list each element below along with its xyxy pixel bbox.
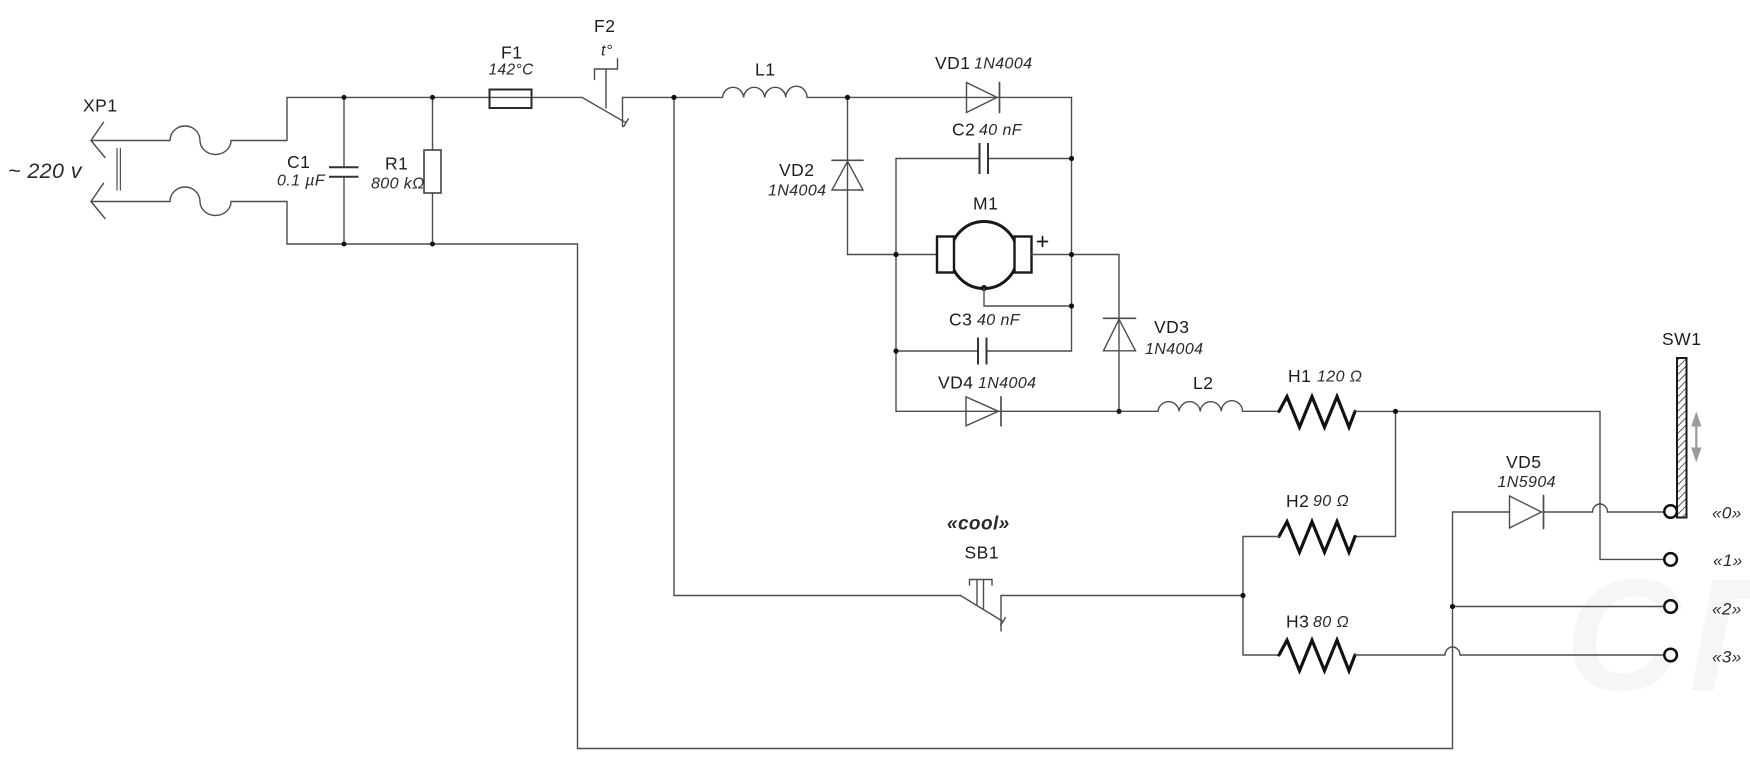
wire terminal 2 xyxy=(1453,606,1665,608)
pushbutton SB1 plunger xyxy=(970,580,993,609)
wire F2 to node A xyxy=(623,96,723,98)
node R1 top xyxy=(430,95,435,100)
diode VD2 xyxy=(832,97,863,254)
connector XP1 pins xyxy=(117,149,120,191)
svg-text:L2: L2 xyxy=(1193,373,1213,393)
switch SW1 travel arrow xyxy=(1691,412,1701,463)
heater H3 xyxy=(1279,640,1355,671)
terminal 1 xyxy=(1664,553,1677,566)
connector XP1 top arrow xyxy=(91,122,105,157)
svg-text:0.1 µF: 0.1 µF xyxy=(277,173,326,190)
switch SW1 slider bar xyxy=(1677,358,1687,518)
wire top rail xyxy=(287,96,582,98)
svg-text:1N4004: 1N4004 xyxy=(978,375,1036,392)
wire L1 to corner xyxy=(807,96,1072,98)
pushbutton SB1 blade xyxy=(961,596,1006,626)
fuse F1 xyxy=(490,90,532,109)
svg-text:40 nF: 40 nF xyxy=(977,312,1021,329)
node VD3 bottom xyxy=(1116,409,1121,414)
thermal switch F2 fixed contact xyxy=(622,98,624,127)
motor bottom terminal xyxy=(981,285,987,291)
diode VD4 xyxy=(966,397,1001,426)
wire SB1 left xyxy=(674,595,961,597)
wire neutral cord (bottom) xyxy=(91,187,287,244)
terminal 2 xyxy=(1664,600,1677,613)
wire H1/H2 junction vertical xyxy=(1355,411,1396,536)
svg-text:C2: C2 xyxy=(952,120,975,140)
svg-text:~ 220 v: ~ 220 v xyxy=(8,159,83,183)
wire node A down to SB1 xyxy=(673,97,675,595)
svg-text:«0»: «0» xyxy=(1712,504,1742,523)
svg-text:M1: M1 xyxy=(973,194,998,214)
svg-text:SB1: SB1 xyxy=(965,543,1000,563)
node terminal-2 tap xyxy=(1450,604,1455,609)
svg-text:H3: H3 xyxy=(1286,612,1309,632)
plus polarity mark xyxy=(1038,237,1048,247)
node H1 right xyxy=(1393,409,1398,414)
svg-text:VD3: VD3 xyxy=(1154,317,1190,337)
wire M1 right brush to VD3 corner xyxy=(1032,254,1120,256)
wire SB1 right to heater node xyxy=(1001,595,1243,597)
node M1 right xyxy=(1069,252,1074,257)
diode VD3 xyxy=(1104,255,1136,412)
node SB1 heater xyxy=(1240,593,1245,598)
svg-text:VD2: VD2 xyxy=(779,160,815,180)
inductor L2 xyxy=(1158,401,1243,412)
svg-text:1N4004: 1N4004 xyxy=(768,183,826,200)
svg-text:800 kΩ: 800 kΩ xyxy=(371,176,425,193)
svg-text:XP1: XP1 xyxy=(83,96,118,116)
thermal switch F2 blade xyxy=(582,97,628,126)
node R1 bottom xyxy=(430,242,435,247)
svg-text:L1: L1 xyxy=(755,60,775,80)
thermal switch F2 actuator xyxy=(595,59,618,108)
heater H1 xyxy=(1279,397,1355,428)
wire M1 bottom tap xyxy=(984,288,1072,306)
terminal 0 xyxy=(1664,505,1677,518)
svg-text:VD5: VD5 xyxy=(1506,452,1542,472)
svg-text:C1: C1 xyxy=(287,152,310,172)
wire VD1 branch vertical (right frame) xyxy=(1071,97,1073,351)
svg-text:40 nF: 40 nF xyxy=(979,122,1023,139)
terminal 3 xyxy=(1664,649,1677,662)
capacitor C2 xyxy=(896,143,1072,174)
connector XP1 bottom arrow xyxy=(91,183,105,218)
node C3 left xyxy=(893,348,898,353)
svg-text:142°C: 142°C xyxy=(489,62,535,79)
node A xyxy=(671,95,676,100)
svg-text:1N5904: 1N5904 xyxy=(1498,474,1556,491)
node C1 top xyxy=(342,95,347,100)
wire H2 left to H3 left xyxy=(1243,537,1279,656)
svg-text:1N4004: 1N4004 xyxy=(974,56,1032,73)
svg-text:R1: R1 xyxy=(385,154,408,174)
wire VD5 anode xyxy=(1453,511,1510,513)
capacitor C3 xyxy=(896,338,1072,365)
capacitor C1 xyxy=(329,97,359,244)
svg-text:t°: t° xyxy=(601,43,613,60)
wire H3 right with hop to terminal 3 xyxy=(1355,647,1664,655)
wire VD5 to terminal 0 with hop xyxy=(1544,504,1665,512)
svg-text:VD4: VD4 xyxy=(938,373,974,393)
node M1 bottom tap xyxy=(1069,303,1074,308)
svg-text:120 Ω: 120 Ω xyxy=(1317,369,1362,386)
pushbutton SB1 fixed contact xyxy=(1000,596,1002,632)
node C1 bottom xyxy=(342,242,347,247)
wire phase cord (top) xyxy=(91,97,287,154)
svg-text:«2»: «2» xyxy=(1712,600,1742,619)
wire H1 to SW1 pole xyxy=(1355,411,1664,559)
svg-text:VD1: VD1 xyxy=(935,53,971,73)
diode VD1 xyxy=(967,83,1000,113)
wire VD2 to M1 left brush xyxy=(848,254,938,256)
svg-text:F1: F1 xyxy=(501,43,522,63)
wire left frame vertical xyxy=(895,159,897,412)
svg-text:80 Ω: 80 Ω xyxy=(1313,614,1349,631)
node VD2 top xyxy=(845,95,850,100)
wire VD4 line xyxy=(896,410,1158,412)
motor M1 xyxy=(937,222,1032,289)
svg-text:SW1: SW1 xyxy=(1662,329,1701,349)
svg-text:«1»: «1» xyxy=(1713,551,1743,570)
diode VD5 xyxy=(1510,496,1544,529)
inductor L1 xyxy=(723,86,808,97)
wire neutral long run xyxy=(578,244,1453,749)
resistor R1 xyxy=(424,97,441,244)
node M1 left xyxy=(893,252,898,257)
svg-text:«3»: «3» xyxy=(1712,648,1742,667)
heater H2 xyxy=(1279,522,1355,553)
svg-text:1N4004: 1N4004 xyxy=(1145,341,1203,358)
svg-text:90 Ω: 90 Ω xyxy=(1313,493,1349,510)
junction node dots xyxy=(342,95,1456,609)
svg-text:H1: H1 xyxy=(1288,366,1311,386)
node C2 right xyxy=(1069,156,1074,161)
wire bottom rail xyxy=(287,243,578,245)
wire L2 to H1 xyxy=(1243,410,1280,412)
svg-text:H2: H2 xyxy=(1286,491,1309,511)
svg-text:«cool»: «cool» xyxy=(947,514,1010,535)
svg-text:СП: СП xyxy=(1565,545,1750,724)
svg-text:C3: C3 xyxy=(949,310,972,330)
svg-text:F2: F2 xyxy=(594,16,615,36)
